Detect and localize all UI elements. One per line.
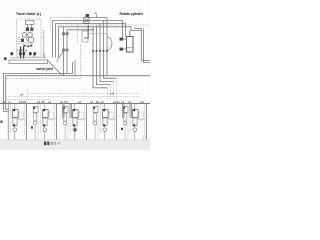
svg-text:PB PA dr: PB PA dr bbox=[17, 49, 27, 53]
svg-text:A1: A1 bbox=[121, 100, 125, 104]
svg-text:A5: A5 bbox=[37, 100, 41, 104]
svg-text:pA: pA bbox=[111, 91, 114, 95]
svg-text:dr: dr bbox=[95, 11, 98, 15]
svg-text:swivel joint: swivel joint bbox=[36, 67, 54, 71]
svg-text:B4: B4 bbox=[65, 100, 69, 104]
svg-text:N: N bbox=[9, 100, 11, 104]
svg-text:b1: b1 bbox=[128, 100, 131, 104]
svg-text:Rotate cylinder: Rotate cylinder bbox=[120, 12, 145, 16]
svg-text:A2: A2 bbox=[101, 100, 105, 104]
svg-text:AR: AR bbox=[140, 100, 144, 104]
svg-text:B2: B2 bbox=[96, 100, 100, 104]
svg-text:A4: A4 bbox=[60, 100, 64, 104]
svg-text:pA: pA bbox=[20, 92, 23, 96]
svg-text:B6: B6 bbox=[23, 100, 27, 104]
svg-text:dr: dr bbox=[3, 100, 5, 104]
svg-text:17: 17 bbox=[143, 136, 147, 140]
svg-text:B5: B5 bbox=[42, 100, 46, 104]
svg-text:A3: A3 bbox=[90, 100, 94, 104]
svg-text:B1: B1 bbox=[117, 100, 121, 104]
svg-text:Travel motor (L): Travel motor (L) bbox=[16, 12, 41, 16]
svg-text:a4: a4 bbox=[48, 100, 51, 104]
svg-text:a3: a3 bbox=[78, 100, 81, 104]
